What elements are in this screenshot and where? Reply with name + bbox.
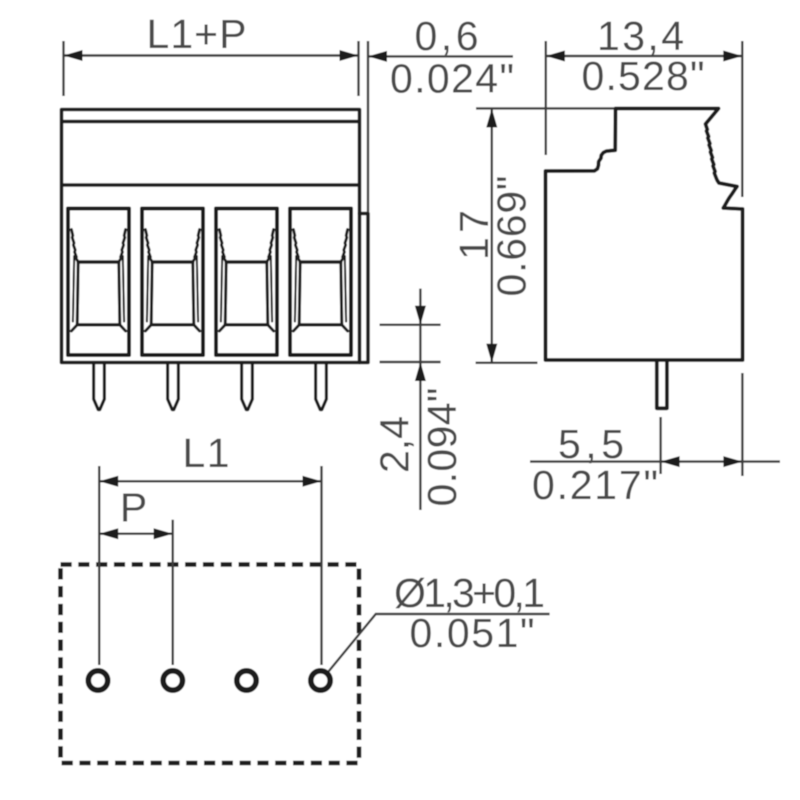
clamp cell 4 (front view wire cavity) [290,209,351,356]
dimension 17: arrowheads [486,108,497,362]
dimension 2,4: arrowheads [415,306,426,381]
dimension P: arrowheads [99,528,173,539]
svg-text:5,5: 5,5 [558,421,624,467]
dimension L1+P: extension and dimension lines [64,41,359,96]
front view: terminal block body outline [62,110,369,363]
svg-text:0,6: 0,6 [415,13,479,59]
dimension 0,6: extension line, leader and arrowhead [368,41,513,212]
front view: top cap line [62,120,360,124]
bottom view: PCB outline (dashed) [61,565,360,764]
svg-text:L1+P: L1+P [147,11,247,57]
svg-text:0.051": 0.051" [410,610,535,656]
svg-text:0.094": 0.094" [419,388,465,507]
solder pin 1 (front view) [94,363,105,410]
svg-text:0.669": 0.669" [489,176,535,297]
svg-text:0.217": 0.217" [532,462,658,508]
dimension 13,4: extension and dimension lines [546,41,743,197]
front view: housing mid line [62,183,360,187]
svg-text:L1: L1 [183,430,230,476]
dimension 2,4: extension and dimension lines [380,289,441,510]
drill hole 2 [163,671,182,690]
dimension P: extension and dimension lines [99,520,173,665]
clamp cell 3 (front view wire cavity) [216,209,277,356]
dimension L1+P: arrowheads [64,50,359,61]
svg-text:2,4: 2,4 [372,416,418,473]
dimension L1: arrowheads [99,476,321,487]
dimension 5,5: extension and dimension lines [530,373,780,476]
dimension 17: extension and dimension lines [476,108,614,362]
svg-text:0.024": 0.024" [390,56,514,102]
drill hole 4 [311,671,330,690]
dimension 5,5: arrowheads [661,456,743,467]
drill hole 3 [237,671,256,690]
svg-text:0.528": 0.528" [582,53,705,99]
leader line for hole diameter callout [329,614,550,671]
dimension 13,4: arrowheads [546,51,743,62]
solder pin 4 (front view) [316,363,327,410]
solder pin 3 (front view) [242,363,253,410]
clamp cell 2 (front view wire cavity) [142,209,203,356]
dimension L1: extension and dimension lines [99,466,321,665]
drill hole 1 [88,671,107,690]
side view: solder pin [657,361,667,408]
clamp cell 1 (front view wire cavity) [68,209,129,356]
side view: housing profile [546,109,743,361]
solder pin 2 (front view) [168,363,179,410]
svg-text:P: P [120,485,147,531]
